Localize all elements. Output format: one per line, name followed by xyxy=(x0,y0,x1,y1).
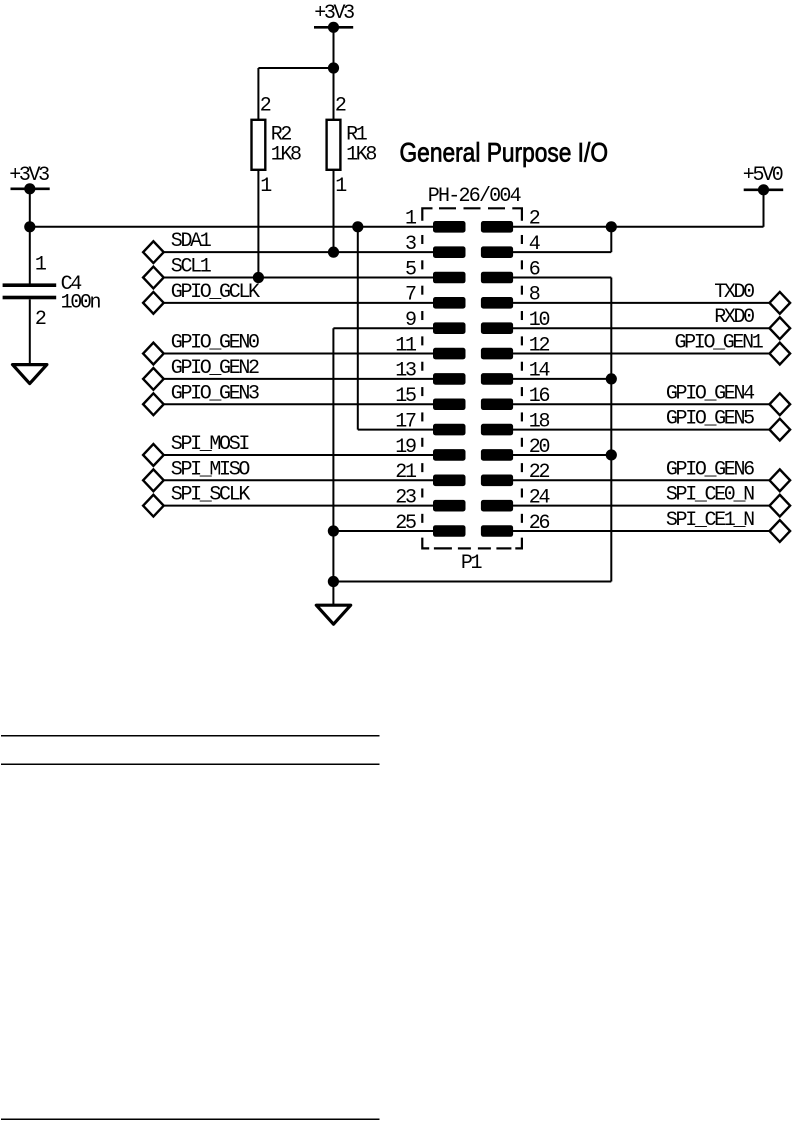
svg-text:SDA1: SDA1 xyxy=(171,230,212,253)
svg-text:6: 6 xyxy=(529,258,540,281)
svg-text:GPIO_GEN1: GPIO_GEN1 xyxy=(675,332,764,355)
svg-text:25: 25 xyxy=(395,512,416,535)
svg-text:GPIO_GEN4: GPIO_GEN4 xyxy=(666,382,754,405)
svg-text:GPIO_GEN5: GPIO_GEN5 xyxy=(666,408,754,431)
svg-text:SPI_MISO: SPI_MISO xyxy=(171,458,250,481)
svg-text:2: 2 xyxy=(35,308,46,331)
svg-text:100n: 100n xyxy=(61,292,101,315)
svg-text:18: 18 xyxy=(529,410,550,433)
svg-text:3: 3 xyxy=(405,233,416,256)
svg-text:GPIO_GEN0: GPIO_GEN0 xyxy=(171,332,259,355)
svg-text:7: 7 xyxy=(405,284,416,307)
svg-text:11: 11 xyxy=(395,334,417,357)
svg-text:General Purpose I/O: General Purpose I/O xyxy=(400,137,609,167)
svg-text:+3V3: +3V3 xyxy=(314,2,354,25)
svg-text:17: 17 xyxy=(395,410,416,433)
svg-text:1K8: 1K8 xyxy=(271,144,301,167)
svg-text:GPIO_GEN6: GPIO_GEN6 xyxy=(666,458,754,481)
svg-text:1K8: 1K8 xyxy=(346,144,376,167)
svg-text:4: 4 xyxy=(529,233,540,256)
svg-text:20: 20 xyxy=(529,436,550,459)
svg-text:23: 23 xyxy=(395,486,416,509)
svg-text:GPIO_GCLK: GPIO_GCLK xyxy=(171,281,260,304)
svg-text:2: 2 xyxy=(260,94,271,117)
svg-text:26: 26 xyxy=(529,512,550,535)
svg-text:16: 16 xyxy=(529,385,550,408)
svg-text:2: 2 xyxy=(529,208,540,231)
svg-text:TXD0: TXD0 xyxy=(714,281,754,304)
svg-text:10: 10 xyxy=(529,309,550,332)
svg-text:GPIO_GEN3: GPIO_GEN3 xyxy=(171,382,259,405)
svg-text:12: 12 xyxy=(529,334,550,357)
svg-text:24: 24 xyxy=(529,486,550,509)
svg-text:SPI_CE0_N: SPI_CE0_N xyxy=(666,484,754,507)
svg-text:5: 5 xyxy=(405,258,416,281)
svg-text:+3V3: +3V3 xyxy=(9,164,49,187)
svg-text:+5V0: +5V0 xyxy=(743,164,783,187)
svg-text:SPI_SCLK: SPI_SCLK xyxy=(171,484,251,507)
svg-text:GPIO_GEN2: GPIO_GEN2 xyxy=(171,357,259,380)
svg-text:SPI_MOSI: SPI_MOSI xyxy=(171,433,250,456)
svg-text:22: 22 xyxy=(529,461,550,484)
svg-text:SPI_CE1_N: SPI_CE1_N xyxy=(666,509,754,532)
svg-text:SCL1: SCL1 xyxy=(171,256,212,279)
svg-text:13: 13 xyxy=(395,360,416,383)
svg-text:8: 8 xyxy=(529,284,540,307)
svg-text:21: 21 xyxy=(395,461,417,484)
svg-text:19: 19 xyxy=(395,436,416,459)
svg-text:PH-26/004: PH-26/004 xyxy=(428,185,521,208)
svg-text:14: 14 xyxy=(529,360,550,383)
svg-text:RXD0: RXD0 xyxy=(714,306,754,329)
svg-text:2: 2 xyxy=(335,94,346,117)
svg-text:15: 15 xyxy=(395,385,416,408)
svg-text:9: 9 xyxy=(405,309,416,332)
svg-text:P1: P1 xyxy=(461,552,483,575)
